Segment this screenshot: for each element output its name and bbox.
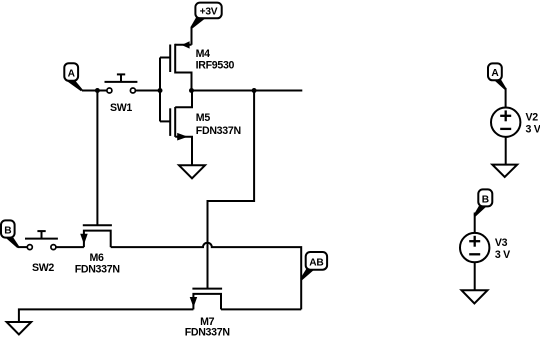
- svg-text:A: A: [68, 68, 76, 79]
- svg-text:AB: AB: [309, 257, 323, 268]
- svg-text:B: B: [482, 194, 489, 205]
- net label B (source side, right): [474, 189, 493, 216]
- wire: SW2 right terminal to M6 source: [56, 246, 84, 248]
- svg-text:FDN337N: FDN337N: [75, 263, 120, 275]
- wire: A flag to V2 plus: [505, 88, 507, 108]
- transistor M5 NMOS FDN337N: [160, 91, 241, 166]
- transistor M4 PMOS IRF9530: [160, 41, 235, 90]
- wire: output rail: [192, 90, 303, 92]
- net label B (input flag, left): [1, 220, 19, 248]
- source V3 3V: [460, 233, 510, 262]
- node junction dot (rail to M7 gate): [252, 88, 257, 93]
- wire: M7 source left to ground: [19, 309, 194, 322]
- svg-text:B: B: [4, 225, 11, 236]
- ground (below V3): [462, 290, 488, 303]
- net label A (source side, right): [488, 63, 507, 89]
- power +3V flag: [191, 3, 222, 29]
- ground (far left): [7, 322, 32, 335]
- net label A (input flag, top left): [64, 63, 83, 91]
- svg-text:3 V: 3 V: [495, 249, 510, 261]
- svg-text:IRF9530: IRF9530: [196, 60, 235, 72]
- wire: rail down and jog left to M7 gate: [208, 91, 255, 289]
- wire: node A down to M6 gate: [96, 91, 98, 226]
- svg-text:M6: M6: [89, 252, 104, 264]
- svg-text:V2: V2: [526, 112, 539, 124]
- transistor M7 NMOS FDN337N (rotated, gate up): [185, 289, 230, 337]
- svg-text:+3V: +3V: [200, 7, 218, 18]
- wire: SW1 right terminal to gate node: [136, 90, 160, 92]
- ground (below M5): [179, 165, 205, 178]
- switch SW2 (pushbutton): [25, 231, 58, 274]
- wire: B flag to V3 plus: [474, 213, 476, 234]
- svg-text:SW1: SW1: [110, 102, 132, 114]
- ground (below V2): [492, 165, 517, 177]
- wire: A flag to SW1 left terminal: [82, 90, 107, 92]
- wire: +3V to M4 source: [191, 27, 193, 45]
- svg-text:M5: M5: [196, 112, 211, 124]
- svg-text:A: A: [491, 68, 499, 79]
- node junction dot (M4/M5 drains): [189, 88, 194, 93]
- svg-text:FDN337N: FDN337N: [185, 327, 230, 337]
- transistor M6 NMOS FDN337N (rotated, gate up): [75, 225, 120, 275]
- svg-text:V3: V3: [495, 237, 508, 249]
- net label AB: [300, 252, 327, 280]
- wire: M6 drain right with hop over M7 gate line, corner down to AB: [111, 243, 302, 310]
- switch SW1 (pushbutton): [105, 74, 138, 114]
- node A junction dot: [95, 88, 100, 93]
- node junction dot (gate line): [158, 88, 163, 93]
- svg-text:M4: M4: [196, 48, 211, 60]
- svg-text:FDN337N: FDN337N: [196, 125, 241, 137]
- wire: V2 minus to ground: [505, 137, 507, 165]
- wire: B flag to SW2 left terminal: [18, 246, 27, 248]
- wire: V3 minus to ground: [474, 262, 476, 290]
- wire: gate vertical line M4 gate to M5 gate: [159, 58, 161, 122]
- source V2 3V: [491, 108, 540, 137]
- svg-text:3 V: 3 V: [526, 124, 540, 136]
- wire: M7 drain right to AB corner: [221, 308, 301, 310]
- svg-text:SW2: SW2: [32, 262, 54, 274]
